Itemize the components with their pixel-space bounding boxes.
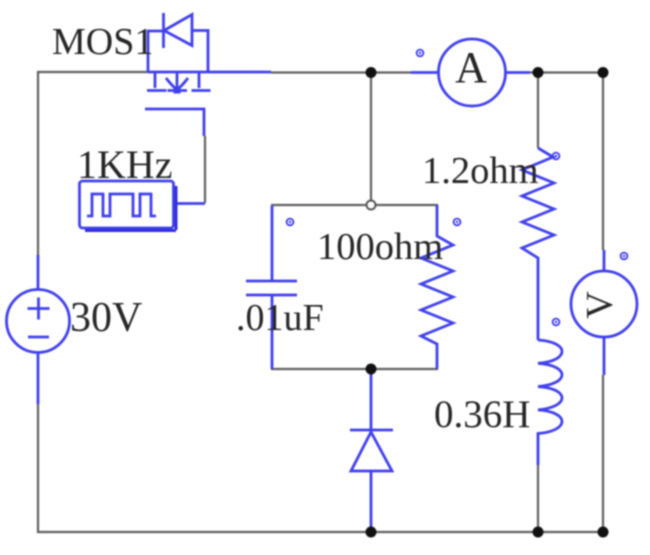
svg-text:1.2ohm: 1.2ohm xyxy=(422,150,539,192)
svg-text:MOS1: MOS1 xyxy=(52,21,153,63)
svg-text:A: A xyxy=(455,43,487,92)
svg-text:.01uF: .01uF xyxy=(236,297,324,339)
svg-text:100ohm: 100ohm xyxy=(317,226,443,268)
svg-text:1KHz: 1KHz xyxy=(77,142,173,187)
svg-text:0.36H: 0.36H xyxy=(434,393,530,436)
svg-text:30V: 30V xyxy=(70,295,142,341)
svg-text:V: V xyxy=(579,291,621,319)
